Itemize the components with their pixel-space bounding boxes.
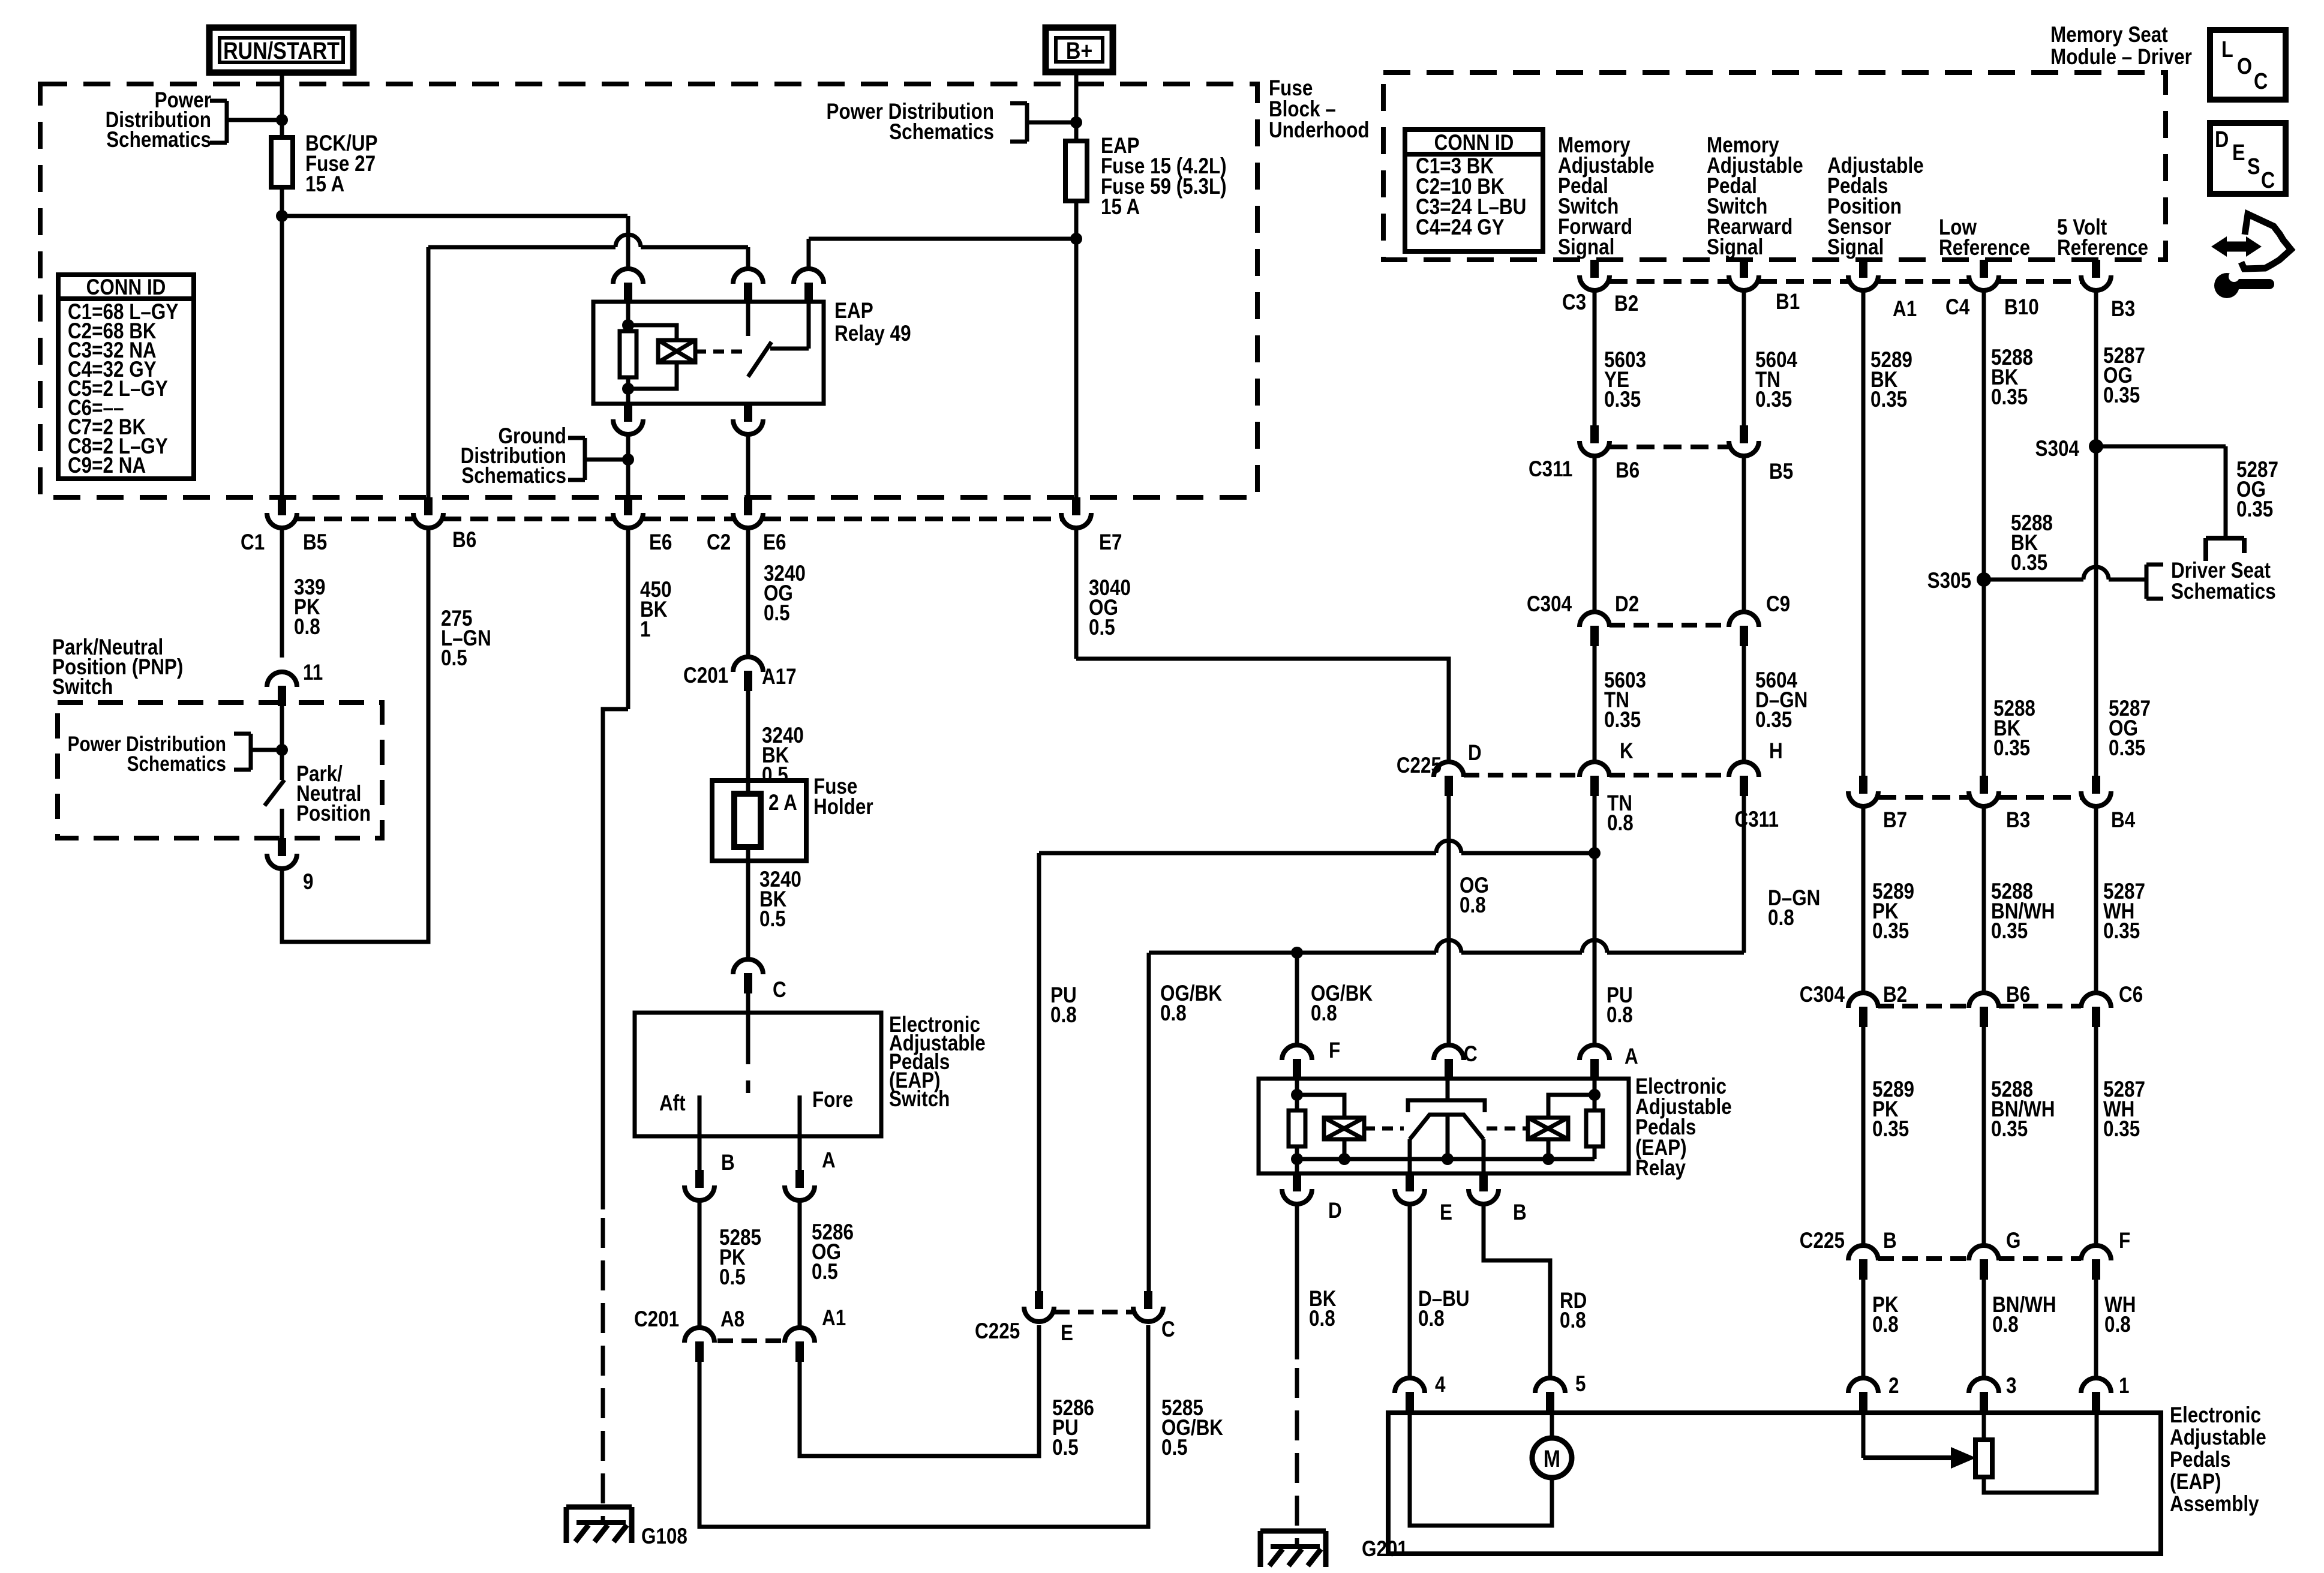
- svg-text:B3: B3: [2006, 808, 2030, 833]
- node B+ distribution tap: [1070, 116, 1082, 128]
- svg-text:C: C: [2261, 168, 2275, 193]
- svg-text:Park/NeutralPosition: Park/NeutralPosition: [296, 762, 371, 826]
- svg-text:G108: G108: [641, 1524, 687, 1549]
- dashed harness line C201 row: [717, 1338, 782, 1343]
- wire label 450 BK 1: [626, 527, 630, 709]
- wire label 3240 OG 0.5: [746, 527, 750, 657]
- svg-text:5288BK0.35: 5288BK0.35: [2011, 511, 2053, 575]
- wire label 5289 PK 0.35: [1861, 806, 1866, 993]
- relay pin connector B: [1469, 1173, 1499, 1204]
- off-page fork (5287 to driver seat): [2206, 536, 2244, 541]
- svg-text:D: D: [1328, 1199, 1342, 1223]
- svg-text:MemoryAdjustablePedalSwitchFor: MemoryAdjustablePedalSwitchForwardSignal: [1558, 133, 1655, 260]
- svg-text:PU0.8: PU0.8: [1607, 983, 1633, 1028]
- svg-text:F: F: [2119, 1229, 2130, 1253]
- connector pin 2: [1848, 1378, 1878, 1412]
- wire coil return to ground distribution: [626, 434, 630, 497]
- svg-text:5 VoltReference: 5 VoltReference: [2057, 215, 2148, 260]
- svg-text:G: G: [2006, 1229, 2020, 1253]
- wiper arrow: [1861, 1413, 1866, 1458]
- ground G108: [566, 1505, 632, 1510]
- wire WH 0.8 to pin 1: [2094, 1280, 2098, 1378]
- svg-text:Power DistributionSchematics: Power DistributionSchematics: [826, 100, 993, 145]
- relay pin connector D: [1282, 1173, 1312, 1204]
- svg-text:Driver SeatSchematics: Driver SeatSchematics: [2171, 559, 2276, 604]
- wire label 5286 OG 0.5: [798, 1200, 802, 1328]
- svg-text:RUN/START: RUN/START: [223, 37, 340, 64]
- 450 BK dashed run to G108: [601, 1218, 605, 1523]
- svg-text:B+: B+: [1066, 37, 1092, 64]
- wire E7 over to C225-D: [1076, 659, 1449, 762]
- wire TN junction across to E column: [1039, 851, 1436, 855]
- svg-text:5603YE0.35: 5603YE0.35: [1604, 348, 1646, 412]
- svg-text:B2: B2: [1883, 983, 1907, 1007]
- svg-text:H: H: [1769, 739, 1783, 764]
- svg-text:TN0.8: TN0.8: [1607, 791, 1634, 836]
- EAP relay yoke from C pin: [1446, 1079, 1450, 1100]
- svg-text:EAPRelay 49: EAPRelay 49: [834, 299, 911, 346]
- wire 9 down and over to B6 column: [282, 527, 428, 942]
- relay49 resistor: [620, 331, 636, 377]
- module pin connector B1: [1729, 260, 1759, 290]
- svg-text:C225: C225: [975, 1319, 1020, 1344]
- fuse F27 BCK/UP 15A: [271, 137, 293, 187]
- svg-text:S: S: [2247, 154, 2260, 179]
- svg-text:A1: A1: [1893, 297, 1917, 322]
- svg-text:B: B: [721, 1151, 735, 1175]
- connector C304/C6: [2081, 993, 2111, 1027]
- position sensor potentiometer: [1975, 1440, 1992, 1477]
- module pin connector C4/B10: [1969, 260, 1999, 290]
- svg-text:339PK0.8: 339PK0.8: [294, 575, 325, 640]
- connector 11 to PNP switch: [267, 672, 297, 706]
- svg-text:11: 11: [303, 661, 323, 685]
- wire OG/BK 0.8 (left leg): [1147, 953, 1151, 1291]
- svg-text:5285OG/BK0.5: 5285OG/BK0.5: [1161, 1396, 1223, 1460]
- relay pin connector F: [1282, 1045, 1312, 1079]
- connector C311/B4: [2081, 776, 2111, 806]
- svg-text:3040OG0.5: 3040OG0.5: [1089, 576, 1131, 640]
- svg-text:C311: C311: [1735, 807, 1779, 832]
- svg-text:5603TN0.35: 5603TN0.35: [1604, 668, 1646, 733]
- wire A8 to C225-C leg: [699, 1325, 1148, 1527]
- connector C201/A8: [684, 1328, 714, 1362]
- wire label 5287 WH 0.35: [2094, 806, 2098, 993]
- relay 49 NO pin connector: [794, 269, 824, 303]
- svg-text:E6: E6: [649, 530, 672, 555]
- svg-text:B6: B6: [2006, 983, 2030, 1007]
- dashed harness line C304 row: [1610, 623, 1729, 628]
- connector A below switch: [798, 1136, 802, 1170]
- wire relay NO pin to B+ rail: [807, 239, 811, 269]
- svg-text:B6: B6: [1616, 458, 1640, 483]
- fuse 2A in holder: [734, 794, 761, 847]
- CONN ID table (fuse block): [58, 275, 194, 479]
- svg-text:5288BN/WH0.35: 5288BN/WH0.35: [1991, 879, 2055, 944]
- connector pin 4: [1395, 1378, 1425, 1412]
- wire fuse27 to relay coil feed: [280, 187, 284, 497]
- svg-text:2: 2: [1888, 1374, 1899, 1398]
- connector C311/B6: [1580, 425, 1610, 456]
- svg-text:FuseBlock –Underhood: FuseBlock –Underhood: [1269, 76, 1370, 143]
- relay box Electronic Adjustable Pedals EAP Relay: [1259, 1079, 1629, 1173]
- wire BN/WH 0.8 to pin 3: [1982, 1280, 1986, 1378]
- svg-text:2 A: 2 A: [768, 791, 797, 815]
- svg-text:5286OG0.5: 5286OG0.5: [812, 1220, 854, 1284]
- svg-text:PU0.8: PU0.8: [1050, 983, 1077, 1028]
- EAP relay left resistor: [1295, 1079, 1299, 1110]
- module pin connector B3: [2081, 260, 2111, 290]
- svg-text:C: C: [773, 978, 786, 1002]
- svg-text:OG0.8: OG0.8: [1460, 873, 1489, 918]
- wire D-BU 0.8 to pin 4: [1408, 1204, 1412, 1378]
- svg-text:CONN ID: CONN ID: [86, 275, 166, 300]
- connector C225/D: [1434, 762, 1464, 796]
- relay 49 switch common pin connector: [733, 269, 763, 303]
- svg-text:Memory SeatModule – Driver: Memory SeatModule – Driver: [2050, 23, 2192, 70]
- connector E7: [1061, 497, 1091, 528]
- connector B below switch: [698, 1136, 702, 1170]
- svg-text:4: 4: [1435, 1373, 1445, 1397]
- svg-text:AdjustablePedalsPositionSensor: AdjustablePedalsPositionSensorSignal: [1827, 154, 1924, 260]
- bracket Power Distribution Schematics (PNP): [249, 734, 253, 770]
- svg-text:A17: A17: [762, 665, 797, 689]
- 450 BK wire jog: [603, 709, 628, 1209]
- svg-text:5285PK0.5: 5285PK0.5: [719, 1226, 761, 1290]
- relay pin connector E: [1395, 1173, 1425, 1204]
- connector 9: [267, 838, 297, 869]
- wire S305 to driver seat schematics: [1984, 578, 2083, 582]
- svg-text:C225: C225: [1800, 1229, 1845, 1253]
- node: fuse 27 output junction: [276, 210, 288, 222]
- relay box EAP Relay 49: [593, 302, 824, 404]
- node: power distribution tap: [276, 114, 288, 126]
- EAP relay linkage dashed: [1364, 1127, 1404, 1131]
- connector pin 1: [2081, 1378, 2111, 1412]
- relay49 switch common stub: [746, 302, 750, 336]
- ground G201: [1260, 1529, 1326, 1534]
- connector C304/B6: [1969, 993, 1999, 1027]
- connector C225/F: [2081, 1245, 2111, 1280]
- wire label 5603 TN 0.35: [1593, 646, 1597, 762]
- svg-text:BK0.8: BK0.8: [1309, 1287, 1337, 1331]
- svg-text:5287OG0.35: 5287OG0.35: [2103, 344, 2145, 408]
- svg-text:D: D: [2215, 127, 2229, 152]
- svg-text:GroundDistributionSchematics: GroundDistributionSchematics: [461, 424, 566, 488]
- wire label TN 0.8: [1593, 796, 1597, 1045]
- svg-text:C9: C9: [1766, 592, 1790, 617]
- wire label 5288 BN/WH 0.35: [1982, 806, 1986, 993]
- svg-text:A8: A8: [720, 1307, 744, 1332]
- svg-text:PowerDistributionSchematics: PowerDistributionSchematics: [106, 88, 211, 152]
- svg-text:A: A: [1625, 1044, 1638, 1069]
- splice S305: [1977, 572, 1991, 587]
- PNP switch arm: [265, 780, 284, 806]
- svg-text:B2: B2: [1614, 292, 1638, 316]
- svg-text:1: 1: [2119, 1374, 2129, 1398]
- relay49 coil: [658, 340, 695, 362]
- relay49 output connector: [733, 404, 763, 434]
- wire EAP fuse down to E7: [1074, 201, 1079, 497]
- svg-text:C201: C201: [683, 664, 728, 688]
- svg-text:Fore: Fore: [812, 1088, 853, 1112]
- EAP relay bottom bus: [1297, 1157, 1595, 1161]
- svg-text:M: M: [1544, 1445, 1560, 1472]
- wire label 5288 BK 0.35: [1982, 290, 1986, 776]
- svg-text:BCK/UPFuse 2715 A: BCK/UPFuse 2715 A: [305, 131, 378, 197]
- connector C304/C9: [1729, 612, 1759, 646]
- svg-text:ElectronicAdjustablePedals(EAP: ElectronicAdjustablePedals(EAP)Relay: [1635, 1074, 1732, 1181]
- wire label 5285 PK 0.5: [698, 1200, 702, 1328]
- svg-text:O: O: [2237, 54, 2252, 79]
- svg-text:5288BK0.35: 5288BK0.35: [1991, 346, 2033, 410]
- dotted harness line C311 row (B7-B3-B4): [1878, 795, 1969, 800]
- splice S304: [2089, 439, 2103, 454]
- svg-text:E7: E7: [1099, 530, 1122, 555]
- svg-text:LowReference: LowReference: [1939, 215, 2030, 260]
- node OG/BK junction: [1291, 947, 1303, 959]
- svg-text:3: 3: [2006, 1374, 2016, 1398]
- wire A1 to C225-E leg: [800, 1325, 1039, 1456]
- wire PU 0.8 (E column upper): [1037, 853, 1041, 1291]
- box Electronic Adjustable Pedals EAP Switch: [635, 1013, 881, 1136]
- box Electronic Adjustable Pedals EAP Assembly: [1388, 1413, 2161, 1554]
- svg-text:5604D–GN0.35: 5604D–GN0.35: [1755, 668, 1807, 733]
- svg-text:Park/NeutralPosition (PNP)Swit: Park/NeutralPosition (PNP)Switch: [52, 635, 183, 700]
- svg-text:C201: C201: [634, 1307, 679, 1332]
- node ground distribution tap: [622, 454, 634, 466]
- connector C225/C: [1133, 1291, 1163, 1322]
- svg-text:C6: C6: [2119, 983, 2143, 1007]
- big dashed box: Fuse Block - Underhood: [40, 84, 1257, 497]
- svg-text:K: K: [1620, 739, 1634, 764]
- svg-text:C4: C4: [1945, 295, 1969, 320]
- svg-text:CONN ID: CONN ID: [1434, 131, 1514, 155]
- wire RD 0.8 to pin 5: [1484, 1204, 1550, 1378]
- EAP switch stem: [746, 1013, 750, 1064]
- wire from RUN/START to Fuse 27: [280, 73, 284, 137]
- svg-text:L: L: [2221, 37, 2233, 62]
- connector C225/G: [1969, 1245, 1999, 1280]
- svg-text:B7: B7: [1883, 808, 1907, 833]
- dashed harness line C225 row (D-K-H): [1464, 773, 1580, 778]
- svg-text:450BK1: 450BK1: [640, 578, 671, 642]
- connector C225/K: [1580, 762, 1610, 796]
- svg-text:C304: C304: [1800, 983, 1845, 1007]
- connector pin 5: [1535, 1378, 1565, 1412]
- wire label 5604 TN 0.35: [1742, 290, 1746, 425]
- wire relay output down to C2 connector: [746, 434, 750, 497]
- icon box DESC: [2210, 123, 2286, 194]
- svg-text:OG/BK0.8: OG/BK0.8: [1160, 981, 1222, 1026]
- CONN ID table (memory seat module): [1405, 130, 1543, 251]
- wire label 3240 BK 0.5 (upper): [746, 691, 750, 959]
- svg-text:C311: C311: [1529, 457, 1572, 482]
- connector C201/A1: [785, 1328, 815, 1362]
- relay49 coil branch wires: [628, 325, 677, 340]
- svg-text:3240BK0.5: 3240BK0.5: [759, 867, 801, 932]
- svg-text:S304: S304: [2035, 437, 2079, 461]
- svg-text:E6: E6: [763, 530, 786, 555]
- svg-text:5287WH0.35: 5287WH0.35: [2103, 1077, 2145, 1142]
- dotted harness line row1: [297, 517, 413, 521]
- svg-text:A: A: [822, 1148, 836, 1173]
- connector C into EAP switch: [733, 959, 763, 993]
- svg-text:OG/BK0.8: OG/BK0.8: [1311, 981, 1373, 1026]
- svg-text:D2: D2: [1615, 592, 1639, 617]
- svg-text:5289PK0.35: 5289PK0.35: [1872, 1077, 1914, 1142]
- connector B6: [413, 497, 443, 528]
- svg-text:5288BK0.35: 5288BK0.35: [1993, 697, 2035, 761]
- svg-text:C1=68 L–GYC2=68 BKC3=32 NAC4=3: C1=68 L–GYC2=68 BKC3=32 NAC4=32 GYC5=2 L…: [68, 300, 178, 478]
- svg-text:C2: C2: [707, 530, 731, 555]
- wire OG 0.8 down to relay C: [1447, 792, 1451, 1045]
- connector pin 3: [1969, 1378, 1999, 1412]
- dotted harness line C311 row: [1610, 445, 1729, 449]
- EAP relay D exit: [1295, 1159, 1299, 1173]
- svg-text:B1: B1: [1776, 290, 1800, 314]
- connector C304/B2: [1848, 993, 1878, 1027]
- svg-text:E: E: [1440, 1200, 1452, 1225]
- svg-text:D: D: [1468, 741, 1482, 766]
- dashed harness line C225 row (E-C): [1054, 1310, 1133, 1314]
- svg-text:ElectronicAdjustablePedals(EAP: ElectronicAdjustablePedals(EAP)Switch: [889, 1013, 986, 1112]
- connector C2/E6: [733, 497, 763, 528]
- wire label 5604 D-GN 0.35: [1742, 646, 1746, 762]
- svg-text:5604TN0.35: 5604TN0.35: [1755, 348, 1797, 412]
- bracket Driver Seat Schematics: [2145, 565, 2149, 599]
- wrench icon: [2214, 273, 2239, 298]
- svg-text:B3: B3: [2111, 297, 2135, 322]
- connector C311/B5: [1729, 425, 1759, 456]
- svg-text:E: E: [2232, 140, 2245, 166]
- svg-text:MemoryAdjustablePedalSwitchRea: MemoryAdjustablePedalSwitchRearwardSigna…: [1707, 133, 1803, 260]
- svg-text:B: B: [1883, 1229, 1897, 1253]
- dashed harness line C225 row (B-G-F): [1878, 1256, 1969, 1261]
- svg-text:275L–GN0.5: 275L–GN0.5: [441, 607, 491, 671]
- connector E6: [613, 497, 643, 528]
- svg-text:3240BK0.5: 3240BK0.5: [762, 724, 804, 788]
- wire PK 0.8 to pin 2: [1861, 1280, 1866, 1378]
- wire label 5603 YE 0.35: [1593, 290, 1597, 425]
- svg-text:Aft: Aft: [659, 1091, 686, 1116]
- wire label 339 PK 0.8: [280, 527, 284, 658]
- wire label 5287 OG 0.35: [2094, 290, 2098, 776]
- wire OG/BK 0.8 (to relay F): [1295, 953, 1299, 1045]
- connector C225/B: [1848, 1245, 1878, 1280]
- svg-text:PK0.8: PK0.8: [1872, 1293, 1899, 1337]
- dotted harness line module row: [1610, 279, 1729, 284]
- svg-text:C304: C304: [1527, 592, 1572, 617]
- wire BK 0.8 to G201: [1295, 1204, 1299, 1359]
- svg-text:C: C: [1464, 1042, 1478, 1067]
- dashed harness line C304 row (B2-B6-C6): [1878, 1004, 1969, 1008]
- EAP relay armature trapezoid: [1410, 1115, 1484, 1139]
- svg-text:C3: C3: [1562, 290, 1586, 315]
- svg-text:B10: B10: [2004, 295, 2039, 320]
- svg-text:5287OG0.35: 5287OG0.35: [2109, 697, 2151, 761]
- fuse holder box: [712, 781, 806, 861]
- svg-text:F: F: [1329, 1038, 1340, 1063]
- off-page bracket: Power Distribution Schematics: [225, 101, 229, 143]
- EAP assembly motor loop: [1410, 1413, 1552, 1526]
- svg-text:C1: C1: [241, 530, 265, 555]
- module pin connector A1: [1848, 260, 1878, 290]
- relay49 switch NO contact wire: [770, 347, 809, 351]
- relay 49 coil pin connector: [613, 269, 643, 303]
- svg-text:B5: B5: [1769, 460, 1793, 484]
- svg-text:5289BK0.35: 5289BK0.35: [1870, 348, 1912, 412]
- off-page bracket Power Distribution Schematics (B+): [1025, 103, 1029, 142]
- svg-text:C: C: [1161, 1317, 1175, 1342]
- power rail label RUN/START: [209, 28, 353, 73]
- connector C225/H: [1729, 762, 1759, 796]
- off-page bracket Ground Distribution Schematics: [583, 438, 587, 480]
- wire D-GN 0.8 from H: [1742, 796, 1746, 953]
- svg-text:5286PU0.5: 5286PU0.5: [1052, 1396, 1094, 1460]
- svg-text:D–BU0.8: D–BU0.8: [1418, 1287, 1470, 1331]
- svg-text:B5: B5: [303, 530, 327, 555]
- node TN/PU junction: [1589, 847, 1601, 859]
- EAP Relay 49 feed from B6 wire: [427, 247, 431, 497]
- svg-text:B6: B6: [452, 528, 476, 553]
- svg-text:5287OG0.35: 5287OG0.35: [2236, 458, 2278, 522]
- svg-text:D–GN0.8: D–GN0.8: [1768, 886, 1820, 930]
- svg-text:B: B: [1513, 1200, 1527, 1225]
- EAP assembly position sensor feed: [1982, 1413, 1986, 1440]
- svg-text:RD0.8: RD0.8: [1560, 1289, 1587, 1333]
- svg-text:FuseHolder: FuseHolder: [813, 775, 873, 819]
- connector C311/B3: [1969, 776, 1999, 806]
- relay49 linkage dashed: [695, 350, 744, 354]
- wire D-GN across with hops: [1149, 951, 1436, 955]
- power rail label B+: [1046, 28, 1113, 72]
- svg-text:BN/WH0.8: BN/WH0.8: [1992, 1293, 2056, 1337]
- svg-text:5288BN/WH0.35: 5288BN/WH0.35: [1991, 1077, 2055, 1142]
- relay pin connector A: [1580, 1045, 1610, 1079]
- node EAP fuse output junction: [1070, 233, 1082, 245]
- relay pin connector C: [1434, 1045, 1464, 1079]
- wire label 5289 BK 0.35: [1861, 290, 1866, 776]
- svg-text:S305: S305: [1927, 569, 1971, 593]
- svg-text:9: 9: [303, 870, 313, 894]
- svg-text:EAPFuse 15 (4.2L)Fuse 59 (5.3L: EAPFuse 15 (4.2L)Fuse 59 (5.3L)15 A: [1101, 134, 1227, 220]
- svg-text:5289PK0.35: 5289PK0.35: [1872, 879, 1914, 944]
- relay49 switch arm: [748, 342, 771, 377]
- svg-text:C: C: [2254, 69, 2268, 94]
- wire S304 branch: [2096, 445, 2226, 449]
- connector C304/D2: [1580, 612, 1610, 646]
- svg-text:E: E: [1061, 1321, 1073, 1346]
- svg-text:Power DistributionSchematics: Power DistributionSchematics: [68, 733, 226, 776]
- connector C1/B5: [267, 497, 297, 528]
- EAP relay right resistor: [1593, 1079, 1597, 1110]
- connector C311/B7: [1848, 776, 1878, 806]
- svg-text:WH0.8: WH0.8: [2104, 1293, 2136, 1337]
- svg-text:3240OG0.5: 3240OG0.5: [764, 562, 806, 626]
- svg-text:C1=3 BKC2=10 BKC3=24 L–BUC4=24: C1=3 BKC2=10 BKC3=24 L–BUC4=24 GY: [1416, 154, 1526, 240]
- EAP relay coil1 branch: [1297, 1095, 1344, 1118]
- dashed BK run: [1295, 1368, 1299, 1545]
- dashed box Park/Neutral Position switch: [58, 703, 382, 838]
- connector C225/E: [1024, 1291, 1054, 1322]
- EAP relay coil2: [1528, 1118, 1568, 1139]
- svg-text:5287WH0.35: 5287WH0.35: [2103, 879, 2145, 944]
- PNP switch wire and contact: [280, 706, 284, 780]
- svg-text:ElectronicAdjustablePedals(EAP: ElectronicAdjustablePedals(EAP)Assembly: [2170, 1403, 2266, 1517]
- wire down to EAP relay49 coil pin: [626, 216, 630, 269]
- svg-text:A1: A1: [822, 1306, 846, 1331]
